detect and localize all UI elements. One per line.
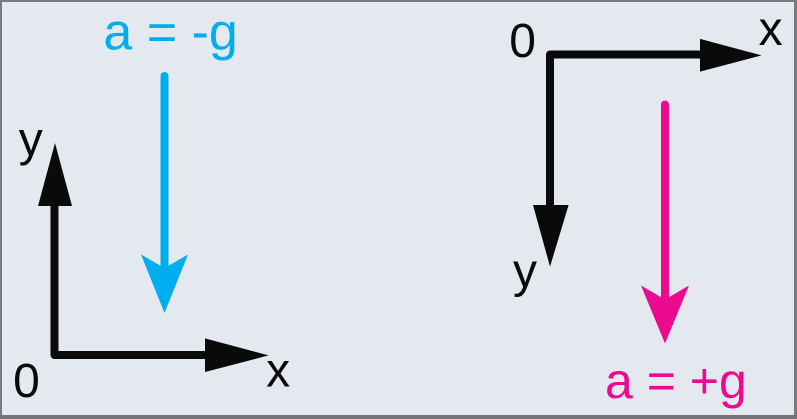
svg-text:x: x [266,345,290,398]
svg-text:a = +g: a = +g [605,353,747,409]
cyan acceleration vector arrowhead [141,255,188,314]
right y-axis arrowhead [533,205,569,267]
svg-text:0: 0 [509,15,536,68]
svg-text:y: y [19,114,43,167]
svg-text:x: x [759,3,783,56]
magenta acceleration vector arrowhead [641,286,689,344]
left x-axis arrowhead [205,338,269,372]
left y-axis arrowhead [38,143,72,206]
svg-text:0: 0 [13,355,40,408]
right axes: x-axis shaft with rounded corner [550,55,700,207]
left axes: x-axis shaft with rounded corner [55,208,207,355]
svg-text:a = -g: a = -g [103,3,237,61]
cyan acceleration vector shaft [161,76,169,270]
right x-axis arrowhead [700,39,762,72]
left axes: y-axis shaft [51,205,59,355]
magenta acceleration vector shaft [661,105,669,301]
svg-text:y: y [513,245,537,298]
